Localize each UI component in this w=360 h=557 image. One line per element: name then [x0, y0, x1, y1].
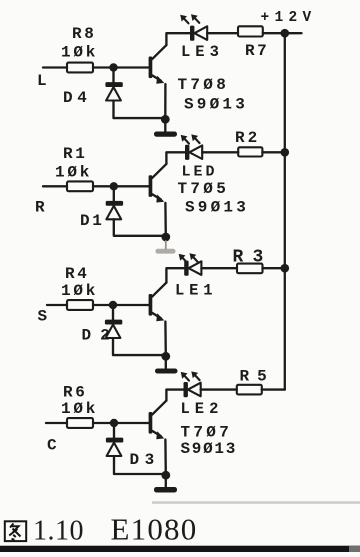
ground stage 1	[154, 122, 177, 136]
label R3	[233, 248, 273, 268]
wire resistor to base node	[93, 304, 113, 306]
transistor T705 (NPN S9013)	[149, 164, 167, 203]
resistor R8 10k	[67, 63, 93, 73]
wire +12V rail (vertical)	[284, 33, 286, 389]
resistor R6 10k	[67, 418, 93, 428]
label D1	[80, 212, 104, 230]
transistor T708 (NPN S9013)	[149, 45, 167, 84]
wire input S to resistor	[47, 304, 67, 306]
ground stage 3	[155, 359, 178, 373]
svg-text:S9Ø13: S9Ø13	[181, 440, 238, 458]
label R4	[65, 265, 89, 283]
transistor T707 (NPN S9013)	[149, 401, 167, 440]
value 10k of R4	[61, 282, 98, 300]
svg-text:D3: D3	[130, 451, 160, 469]
value 10k of R6	[61, 400, 98, 418]
label R8	[72, 25, 96, 43]
wire diode anode to emitter junction	[114, 456, 166, 474]
diode D1	[106, 201, 123, 219]
caption E1080	[111, 512, 198, 547]
svg-text:1Øk: 1Øk	[61, 400, 98, 418]
diode D2	[105, 320, 122, 338]
net label R	[35, 199, 45, 217]
wire base node to transistor base	[114, 422, 149, 424]
svg-text:S9Ø13: S9Ø13	[184, 96, 248, 114]
svg-text:R8: R8	[72, 25, 96, 43]
wire LED to R2	[202, 151, 238, 153]
value 10k of R1	[55, 164, 92, 182]
wire emitter to junction	[164, 203, 167, 237]
wire base node to transistor base	[113, 304, 149, 306]
svg-text:R6: R6	[63, 384, 87, 402]
LED LE2 (with emission arrows)	[181, 371, 201, 397]
label T705	[178, 180, 230, 198]
node emitter junction stage 2	[161, 233, 170, 242]
net label C	[47, 437, 57, 455]
svg-text:S: S	[38, 308, 48, 326]
wire emitter to junction	[164, 440, 167, 476]
svg-text:LE2: LE2	[181, 400, 224, 418]
svg-text:R5: R5	[240, 368, 275, 386]
svg-text:R4: R4	[65, 265, 89, 283]
svg-text:R2: R2	[235, 129, 260, 147]
label T707	[181, 424, 233, 442]
wire base node to diode cathode	[112, 305, 114, 320]
value S9013 of T705	[185, 199, 249, 217]
power label +12V	[261, 10, 317, 26]
resistor R2	[238, 147, 262, 156]
svg-text:T7Ø7: T7Ø7	[181, 424, 233, 442]
wire resistor to base node	[93, 422, 114, 424]
svg-text:R3: R3	[233, 248, 273, 268]
diode D4	[105, 82, 122, 100]
wire collector to LED	[166, 390, 183, 401]
node emitter junction stage 4	[161, 471, 170, 480]
resistor R5	[237, 385, 262, 395]
ground stage 4	[154, 478, 177, 492]
wire collector to LED	[166, 33, 190, 45]
value S9013 of T708	[184, 96, 248, 114]
wire resistor to base node	[93, 185, 114, 187]
wire R7 to +12V rail	[263, 32, 285, 34]
value 10k of R8	[61, 44, 98, 62]
svg-text:R1: R1	[63, 145, 87, 163]
label D4	[63, 89, 91, 107]
value S9013 of T707	[181, 440, 238, 458]
wire base node to transistor base	[114, 185, 149, 187]
label LE1	[175, 282, 217, 300]
label R2	[235, 129, 260, 147]
diode D3	[106, 438, 123, 456]
label D2	[82, 327, 119, 345]
node emitter junction stage 1	[161, 115, 170, 124]
wire +12V stub right of junction	[285, 32, 302, 34]
resistor R7	[238, 26, 263, 36]
wire R3 to +12V rail	[263, 267, 285, 269]
svg-text:+12V: +12V	[261, 10, 317, 26]
svg-text:L: L	[37, 72, 47, 90]
caption figure number 图 1.10	[5, 516, 84, 547]
wire input C to resistor	[46, 422, 67, 424]
svg-text:1Øk: 1Øk	[61, 282, 98, 300]
wire base node to diode cathode	[113, 186, 115, 201]
net label L	[37, 72, 47, 90]
label LED	[182, 164, 218, 181]
wire LED to R5	[201, 388, 237, 390]
svg-text:R7: R7	[245, 42, 269, 60]
wire collector to LED	[166, 268, 184, 282]
svg-text:R: R	[35, 199, 45, 217]
svg-text:1Øk: 1Øk	[61, 44, 98, 62]
svg-text:1Øk: 1Øk	[55, 164, 92, 182]
svg-text:LE3: LE3	[181, 43, 224, 61]
node base node stage 3	[109, 301, 117, 309]
wire LED to R7	[207, 32, 238, 34]
net label S	[38, 308, 48, 326]
svg-text:C: C	[47, 437, 57, 455]
wire LED to R3	[201, 267, 237, 269]
transistor Q3 (NPN S9013)	[149, 283, 167, 322]
wire base node to diode cathode	[113, 423, 115, 438]
LED LED (with emission arrows)	[181, 134, 203, 160]
node rail junction stage 1	[281, 29, 290, 38]
svg-text:T7Ø5: T7Ø5	[178, 180, 230, 198]
label R5	[240, 368, 275, 386]
svg-text:D1: D1	[80, 212, 104, 230]
label R1	[63, 145, 87, 163]
svg-text:D4: D4	[63, 89, 91, 107]
node rail junction stage 3	[281, 264, 290, 273]
wire input L to resistor	[43, 66, 67, 68]
LED LE1 (with emission arrows)	[179, 253, 202, 276]
wire resistor to base node	[93, 66, 114, 68]
label R7	[245, 42, 269, 60]
wire diode anode to emitter junction	[114, 219, 166, 236]
label R6	[63, 384, 87, 402]
svg-text:S9Ø13: S9Ø13	[185, 199, 249, 217]
wire diode anode to emitter junction	[113, 338, 166, 355]
label D3	[130, 451, 160, 469]
wire diode anode to emitter junction	[114, 101, 166, 119]
svg-text:T7Ø8: T7Ø8	[178, 76, 230, 94]
LED LE3 (with emission arrows)	[180, 14, 207, 41]
wire R2 to +12V rail	[262, 151, 284, 153]
wire collector to LED	[166, 152, 185, 164]
resistor R4 10k	[67, 300, 93, 310]
node base node stage 2	[110, 182, 118, 190]
node rail junction stage 2	[281, 148, 290, 157]
node emitter junction stage 3	[161, 352, 170, 361]
node base node stage 1	[109, 63, 117, 71]
wire base node to transistor base	[114, 66, 149, 68]
wire emitter to junction	[164, 322, 167, 357]
wire input R to resistor	[43, 185, 67, 187]
svg-text:1.10: 1.10	[33, 516, 84, 547]
resistor R3	[237, 264, 263, 274]
node base node stage 4	[110, 419, 118, 427]
resistor R1 10k	[67, 181, 93, 191]
svg-text:E1080: E1080	[111, 512, 198, 547]
svg-text:LED: LED	[182, 164, 218, 181]
label LE2	[181, 400, 224, 418]
svg-text:LE1: LE1	[175, 282, 217, 300]
label T708	[178, 76, 230, 94]
wire base node to diode cathode	[112, 68, 114, 83]
label LE3	[181, 43, 224, 61]
wire emitter to junction	[164, 84, 166, 119]
wire R5 to +12V rail	[262, 388, 285, 390]
ground stage 2	[156, 241, 176, 254]
